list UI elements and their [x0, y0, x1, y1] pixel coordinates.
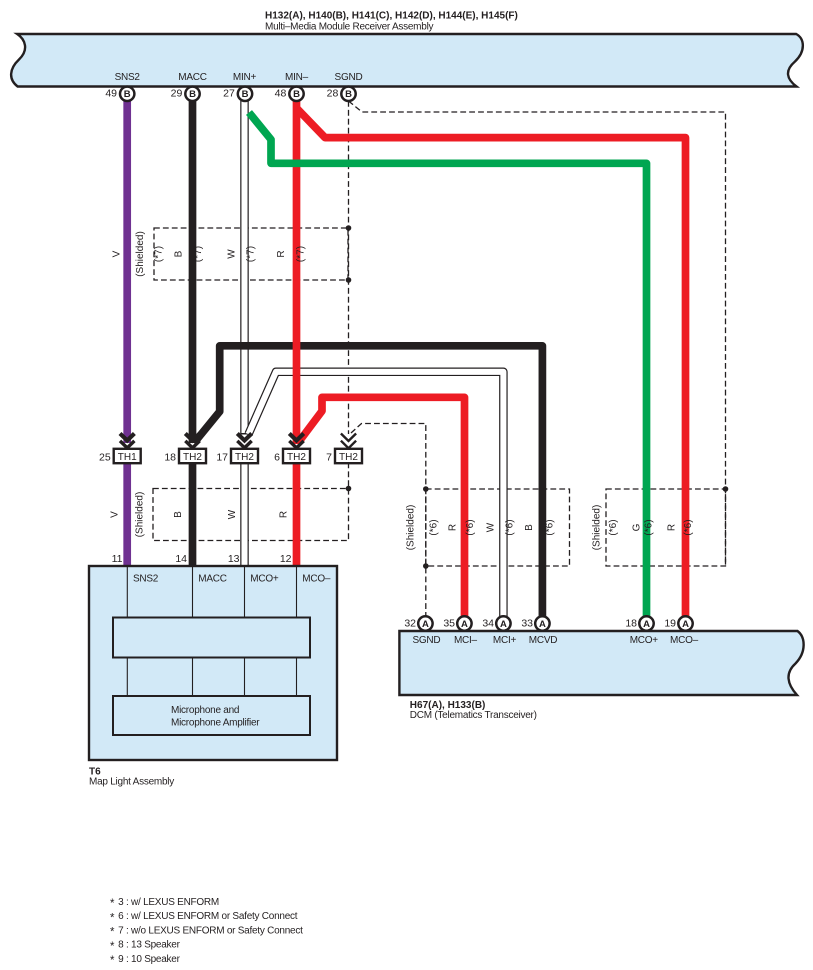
svg-text:27: 27 — [223, 88, 235, 100]
svg-text:H132(A), H140(B), H141(C), H14: H132(A), H140(B), H141(C), H142(D), H144… — [265, 11, 518, 22]
connector TH1 pin 25 — [99, 449, 141, 464]
svg-text:34: 34 — [482, 617, 494, 629]
svg-text:(*7): (*7) — [193, 246, 204, 262]
svg-text:B: B — [174, 250, 185, 257]
svg-text:(*6): (*6) — [644, 519, 655, 535]
T6 Map Light Assembly box — [89, 566, 337, 760]
svg-text:V: V — [112, 250, 123, 257]
svg-text:SGND: SGND — [335, 72, 363, 83]
svg-text:Microphone Amplifier: Microphone Amplifier — [171, 717, 260, 728]
svg-text:MIN+: MIN+ — [233, 72, 257, 83]
svg-text:Multi–Media Module Receiver As: Multi–Media Module Receiver Assembly — [265, 21, 434, 32]
DCM pin 19 circle A — [664, 616, 692, 630]
svg-text:B: B — [189, 89, 196, 100]
svg-text:19: 19 — [664, 617, 676, 629]
svg-text:11: 11 — [112, 553, 123, 565]
svg-text:(*6): (*6) — [465, 519, 476, 535]
svg-text:(*7): (*7) — [154, 246, 165, 262]
wire B MCVD from TH2-18 to pin 33 — [194, 346, 542, 617]
svg-text:MCO–: MCO– — [302, 574, 331, 585]
junction dot middle box bottom — [423, 563, 429, 569]
svg-text:B: B — [173, 511, 184, 518]
svg-text:TH2: TH2 — [287, 452, 306, 463]
svg-text:V: V — [110, 511, 121, 518]
junction dot upper box bottom — [346, 277, 352, 283]
svg-text:B: B — [345, 89, 352, 100]
svg-text:R: R — [276, 250, 287, 257]
svg-text:R: R — [667, 524, 678, 531]
svg-text:W: W — [227, 509, 238, 519]
svg-text:(*6): (*6) — [545, 519, 556, 535]
DCM pin 18 circle A — [625, 616, 653, 630]
svg-text:DCM (Telematics Transceiver): DCM (Telematics Transceiver) — [410, 710, 537, 721]
wire V SNS2 purple — [123, 101, 131, 443]
svg-text:SGND: SGND — [412, 635, 440, 646]
wire R MIN- branch to MCO- pin 19 — [297, 108, 686, 617]
T6 divider MACC — [192, 566, 194, 696]
svg-text:(*6): (*6) — [505, 519, 516, 535]
svg-text:A: A — [643, 619, 650, 630]
connector TH2 pin 7 — [326, 434, 362, 464]
DCM pin 33 circle A — [521, 616, 549, 630]
svg-text:6: 6 — [274, 452, 280, 464]
svg-text:48: 48 — [275, 88, 287, 100]
shield wire SGND branch to right top — [349, 101, 726, 566]
connector TH2 pin 6 — [274, 449, 310, 464]
connector arrows TH row — [120, 434, 304, 448]
wire R lower vertical to T6 pin 12 — [293, 463, 301, 567]
shield wire SGND dashed vertical from pin 28 — [349, 101, 726, 616]
svg-text:Map Light Assembly: Map Light Assembly — [89, 777, 174, 788]
wire V lower vertical to T6 pin 11 — [123, 463, 131, 567]
svg-text:(Shielded): (Shielded) — [592, 505, 603, 551]
shield box lower left — [153, 489, 349, 541]
T6 inner box microphone amplifier — [113, 696, 310, 735]
svg-text:A: A — [422, 619, 429, 630]
svg-text:(*6): (*6) — [429, 519, 440, 535]
junction dot right box top — [723, 486, 729, 492]
svg-text:MCVD: MCVD — [529, 635, 557, 646]
svg-text:A: A — [682, 619, 689, 630]
svg-text:32: 32 — [404, 617, 416, 629]
svg-text:B: B — [524, 524, 535, 531]
svg-text:B: B — [242, 89, 249, 100]
svg-text:MCO+: MCO+ — [630, 635, 659, 646]
svg-text:(*6): (*6) — [683, 519, 694, 535]
pin 48 circle B — [275, 87, 304, 101]
svg-text:MCO+: MCO+ — [250, 574, 279, 585]
svg-text:MCI–: MCI– — [454, 635, 478, 646]
svg-text:B: B — [293, 89, 300, 100]
pin 28 circle B — [327, 87, 356, 101]
svg-text:R: R — [279, 511, 290, 518]
svg-text:13: 13 — [228, 553, 240, 565]
svg-text:MCI+: MCI+ — [493, 635, 517, 646]
DCM pin 32 circle A — [404, 616, 432, 630]
svg-text:W: W — [227, 249, 238, 259]
shield wire below TH2-7 — [348, 463, 350, 489]
DCM pin 35 circle A — [443, 616, 471, 630]
svg-text:(Shielded): (Shielded) — [135, 231, 146, 277]
DCM pin 34 circle A — [482, 616, 510, 630]
svg-text:W: W — [486, 522, 497, 532]
svg-text:18: 18 — [164, 452, 176, 464]
wire R MIN- vertical red — [293, 101, 301, 444]
svg-text:Microphone and: Microphone and — [171, 705, 239, 716]
svg-text:A: A — [539, 619, 546, 630]
svg-text:7: 7 — [326, 452, 332, 464]
svg-text:TH2: TH2 — [339, 452, 358, 463]
wire W lower vertical to T6 pin 13 — [240, 463, 249, 567]
wire R MCI- from TH2-6 to pin 35 — [298, 397, 465, 616]
svg-text:A: A — [500, 619, 507, 630]
svg-text:17: 17 — [216, 452, 228, 464]
pin 29 circle B — [171, 87, 200, 101]
wire W MCI+ white from TH2-17 to pin 34 — [249, 372, 504, 617]
wire B MACC vertical black — [189, 101, 197, 443]
svg-text:49: 49 — [105, 88, 117, 100]
svg-text:12: 12 — [280, 553, 292, 565]
svg-text:(*6): (*6) — [608, 519, 619, 535]
svg-text:G: G — [632, 523, 643, 531]
svg-text:SNS2: SNS2 — [133, 574, 159, 585]
svg-text:(Shielded): (Shielded) — [406, 505, 417, 551]
svg-text:TH2: TH2 — [235, 452, 254, 463]
svg-text:MACC: MACC — [178, 72, 206, 83]
svg-text:B: B — [124, 89, 131, 100]
svg-text:28: 28 — [327, 88, 339, 100]
svg-text:18: 18 — [625, 617, 637, 629]
shield box upper (*7) — [154, 228, 348, 280]
wire W MIN+ vertical white — [240, 100, 249, 435]
svg-text:(*7): (*7) — [246, 246, 257, 262]
svg-text:(Shielded): (Shielded) — [135, 492, 146, 538]
junction dot middle box top — [423, 486, 429, 492]
svg-text:TH1: TH1 — [118, 452, 137, 463]
wire G MIN+ branch to MCO+ pin 18 — [249, 113, 647, 617]
shield wire TH2-7 to DCM pin 32 — [351, 424, 426, 617]
svg-text:14: 14 — [175, 553, 187, 565]
svg-text:SNS2: SNS2 — [115, 72, 141, 83]
T6 divider SNS2 — [126, 566, 128, 696]
DCM banner — [399, 631, 803, 695]
svg-text:29: 29 — [171, 88, 183, 100]
pin 27 circle B — [223, 87, 252, 101]
svg-text:(*7): (*7) — [296, 246, 307, 262]
T6 divider MCO+ — [244, 566, 246, 696]
T6 inner box 1 — [113, 618, 310, 658]
svg-text:MCO–: MCO– — [670, 635, 699, 646]
svg-text:35: 35 — [443, 617, 455, 629]
svg-text:TH2: TH2 — [183, 452, 202, 463]
svg-text:33: 33 — [521, 617, 533, 629]
svg-text:MIN–: MIN– — [285, 72, 309, 83]
T6 divider MCO- — [296, 566, 298, 696]
svg-text:25: 25 — [99, 452, 111, 464]
junction dot upper box top — [346, 225, 352, 231]
wire B lower vertical to T6 pin 14 — [189, 463, 197, 567]
svg-text:A: A — [461, 619, 468, 630]
shield box middle (*6) — [426, 489, 570, 566]
connector banner Multi-Media Module Receiver Assembly — [11, 34, 803, 87]
svg-text:MACC: MACC — [198, 574, 226, 585]
junction dot lower-left box — [346, 486, 352, 492]
pin 49 circle B — [105, 87, 134, 101]
connector TH2 pin 18 — [164, 449, 206, 464]
svg-text:R: R — [448, 524, 459, 531]
connector TH2 pin 17 — [216, 449, 258, 464]
shield box right (*6) — [606, 489, 726, 566]
